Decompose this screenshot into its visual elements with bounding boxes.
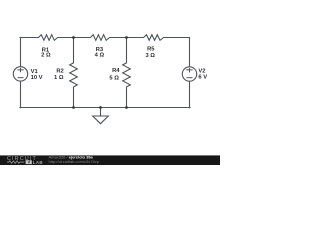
svg-text:R4: R4 — [112, 68, 120, 74]
svg-text:V2: V2 — [198, 68, 205, 74]
svg-text:6 V: 6 V — [198, 75, 207, 81]
svg-text:R5: R5 — [147, 47, 155, 53]
svg-text:V1: V1 — [31, 69, 39, 75]
svg-text:R2: R2 — [56, 68, 63, 74]
svg-text:5 Ω: 5 Ω — [109, 76, 119, 82]
svg-text:10 V: 10 V — [31, 75, 43, 81]
svg-text:4 Ω: 4 Ω — [95, 52, 105, 58]
svg-text:1 Ω: 1 Ω — [54, 75, 64, 81]
svg-text:LAB: LAB — [33, 160, 43, 165]
svg-text:3 Ω: 3 Ω — [145, 53, 155, 59]
svg-text:2 Ω: 2 Ω — [41, 53, 51, 59]
svg-text:http://circuitlab.com/c5x78vp: http://circuitlab.com/c5x78vp — [49, 159, 100, 164]
